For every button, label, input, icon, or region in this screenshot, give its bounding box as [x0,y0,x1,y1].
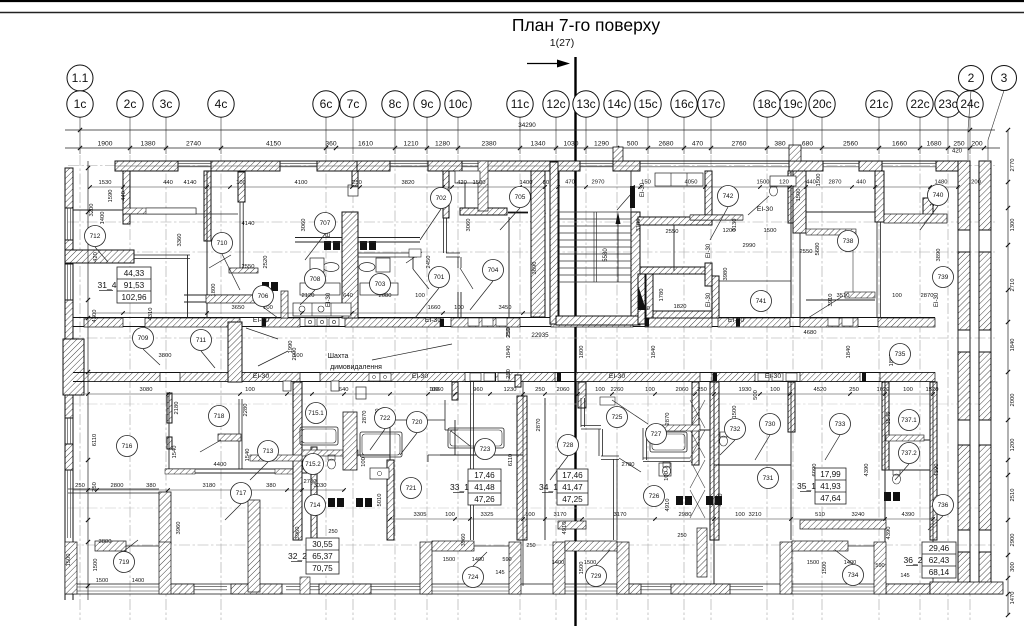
svg-text:145: 145 [495,570,504,576]
svg-text:1660: 1660 [431,387,444,393]
svg-text:730: 730 [765,421,776,428]
svg-text:3210: 3210 [749,512,762,518]
svg-text:1300: 1300 [1010,219,1016,232]
svg-text:17,46: 17,46 [474,471,495,480]
svg-text:22c: 22c [910,97,929,111]
svg-text:1400: 1400 [552,560,564,566]
svg-text:1610: 1610 [358,141,373,148]
svg-text:4100: 4100 [295,180,308,186]
svg-text:13c: 13c [576,97,595,111]
svg-text:2870: 2870 [829,180,842,186]
svg-text:2990: 2990 [743,243,756,249]
svg-text:35_1: 35_1 [797,481,816,491]
svg-text:250: 250 [953,141,964,148]
svg-text:3060: 3060 [301,219,307,232]
svg-text:250: 250 [677,533,686,539]
svg-text:EI-30: EI-30 [253,317,269,324]
svg-text:420: 420 [93,252,99,262]
svg-text:EI-30: EI-30 [728,317,744,324]
svg-text:1500: 1500 [96,578,108,584]
svg-text:3180: 3180 [203,483,216,489]
svg-text:721: 721 [406,485,417,492]
svg-text:5680: 5680 [815,243,821,256]
svg-text:740: 740 [933,192,944,199]
svg-text:EI-30: EI-30 [425,317,441,324]
svg-text:250: 250 [526,543,535,549]
svg-text:EI-30: EI-30 [765,373,781,380]
svg-text:380: 380 [774,141,785,148]
svg-text:1500: 1500 [443,557,455,563]
svg-text:738: 738 [843,238,854,245]
svg-text:640: 640 [343,293,353,299]
svg-text:960: 960 [473,387,483,393]
svg-text:47,25: 47,25 [562,495,583,504]
svg-text:2000: 2000 [1010,394,1016,407]
svg-text:731: 731 [763,475,774,482]
svg-text:440: 440 [806,180,816,186]
svg-text:1400: 1400 [132,578,144,584]
svg-text:47,26: 47,26 [474,495,495,504]
svg-text:420: 420 [457,180,467,186]
svg-text:742: 742 [723,193,734,200]
svg-text:380: 380 [146,483,156,489]
svg-text:2740: 2740 [186,141,201,148]
svg-text:41,93: 41,93 [820,482,841,491]
svg-text:3540: 3540 [886,412,892,425]
svg-text:100: 100 [415,293,425,299]
svg-text:1380: 1380 [141,141,156,148]
svg-text:5010: 5010 [377,494,383,507]
svg-text:1620: 1620 [877,387,890,393]
svg-text:3170: 3170 [614,512,627,518]
svg-text:9c: 9c [421,97,434,111]
svg-text:3360: 3360 [177,234,183,247]
svg-text:510: 510 [815,512,825,518]
svg-text:2870: 2870 [362,411,368,424]
svg-text:4140: 4140 [242,221,255,227]
svg-text:3c: 3c [160,97,173,111]
svg-text:4390: 4390 [718,494,724,507]
svg-text:3820: 3820 [402,180,415,186]
svg-text:1800: 1800 [579,346,585,359]
svg-text:100: 100 [361,457,367,467]
svg-text:3960: 3960 [461,534,467,547]
svg-text:4050: 4050 [685,180,698,186]
svg-text:1840: 1840 [1010,339,1016,352]
svg-text:18c: 18c [757,97,776,111]
svg-text:4680: 4680 [804,330,817,336]
svg-text:EI-30: EI-30 [934,292,940,307]
svg-text:3325: 3325 [481,512,494,518]
svg-text:2550: 2550 [666,229,679,235]
svg-text:EI-30: EI-30 [706,243,712,258]
svg-text:500: 500 [627,141,638,148]
svg-text:EI-30: EI-30 [609,373,625,380]
svg-text:3800: 3800 [99,539,112,545]
svg-text:2: 2 [968,71,975,85]
svg-text:14c: 14c [607,97,626,111]
svg-text:1500: 1500 [66,554,72,567]
svg-text:4400: 4400 [214,462,227,468]
svg-text:7c: 7c [347,97,360,111]
svg-text:1840: 1840 [506,346,512,359]
svg-text:1840: 1840 [651,346,657,359]
svg-text:4910: 4910 [665,499,671,512]
svg-text:590: 590 [875,563,884,569]
svg-text:2560: 2560 [843,141,858,148]
svg-text:680: 680 [802,141,813,148]
svg-text:4520: 4520 [814,387,827,393]
svg-text:706: 706 [258,293,269,300]
svg-text:4c: 4c [215,97,228,111]
svg-text:2450: 2450 [426,256,432,269]
svg-text:250: 250 [506,328,512,338]
svg-text:33_1: 33_1 [450,482,469,492]
svg-text:250: 250 [75,483,85,489]
svg-text:300: 300 [1010,562,1016,572]
svg-text:3800: 3800 [159,353,172,359]
svg-text:440: 440 [121,191,127,201]
svg-text:100: 100 [892,293,902,299]
svg-text:100: 100 [903,387,913,393]
svg-text:1660: 1660 [892,141,907,148]
svg-text:732: 732 [730,426,741,433]
svg-text:1800: 1800 [211,284,217,297]
svg-text:2980: 2980 [679,512,692,518]
svg-text:707: 707 [320,220,331,227]
svg-text:2870: 2870 [921,293,934,299]
svg-text:100: 100 [735,512,745,518]
svg-text:250: 250 [535,387,545,393]
svg-text:1500: 1500 [584,560,596,566]
svg-text:714: 714 [310,502,321,509]
svg-text:100: 100 [245,387,255,393]
svg-text:EI-30: EI-30 [412,373,428,380]
svg-text:100: 100 [525,512,535,518]
svg-text:2060: 2060 [557,387,570,393]
svg-text:62,43: 62,43 [929,556,950,565]
svg-text:5580: 5580 [603,248,609,262]
svg-text:20c: 20c [812,97,831,111]
svg-text:726: 726 [649,493,660,500]
svg-text:41,47: 41,47 [562,483,583,492]
svg-text:724: 724 [468,574,479,581]
svg-text:4310: 4310 [148,308,154,321]
svg-text:250: 250 [92,482,98,492]
svg-text:1500: 1500 [764,228,777,234]
svg-text:720: 720 [412,419,423,426]
svg-text:15c: 15c [638,97,657,111]
svg-text:30,55: 30,55 [312,540,333,549]
svg-text:10c: 10c [448,97,467,111]
svg-text:23c: 23c [938,97,957,111]
svg-text:1500: 1500 [822,562,828,575]
svg-text:3450: 3450 [499,305,512,311]
svg-text:2550: 2550 [800,249,813,255]
svg-text:1500: 1500 [807,560,819,566]
svg-text:470: 470 [692,141,703,148]
svg-text:1540: 1540 [245,449,251,462]
svg-text:1780: 1780 [659,289,665,302]
svg-text:715.1: 715.1 [308,410,324,417]
svg-text:736: 736 [938,502,949,509]
svg-text:100: 100 [664,471,670,481]
svg-text:100: 100 [454,305,464,311]
svg-text:709: 709 [138,335,149,342]
svg-text:703: 703 [375,281,386,288]
svg-text:1500: 1500 [473,180,486,186]
svg-text:8c: 8c [389,97,402,111]
svg-text:3960: 3960 [295,527,301,540]
svg-text:2760: 2760 [732,141,747,148]
svg-text:3130: 3130 [732,219,738,232]
svg-text:500: 500 [753,390,759,400]
svg-text:734: 734 [848,572,859,579]
svg-text:21c: 21c [869,97,888,111]
svg-text:47,64: 47,64 [820,494,841,503]
svg-text:22935: 22935 [531,332,549,339]
svg-text:3170: 3170 [554,512,567,518]
svg-text:Шахта: Шахта [328,353,349,360]
svg-text:1990: 1990 [288,341,294,354]
svg-text:1590: 1590 [108,190,114,203]
svg-text:EI-30: EI-30 [640,182,646,197]
svg-text:2120: 2120 [302,293,315,299]
svg-text:3060: 3060 [466,219,472,232]
svg-text:733: 733 [835,421,846,428]
svg-text:710: 710 [217,240,228,247]
svg-text:2870: 2870 [536,419,542,432]
svg-text:17,99: 17,99 [820,470,841,479]
svg-text:3890: 3890 [936,249,942,262]
svg-text:1470: 1470 [1010,592,1016,605]
svg-text:250: 250 [328,529,337,535]
svg-text:1400: 1400 [472,557,484,563]
svg-text:3890: 3890 [532,262,538,275]
svg-text:2520: 2520 [263,256,269,269]
svg-text:737.1: 737.1 [901,417,917,424]
svg-text:250: 250 [849,387,859,393]
svg-text:100: 100 [445,512,455,518]
svg-text:3130: 3130 [636,219,642,232]
svg-text:4390: 4390 [934,464,940,477]
svg-text:711: 711 [196,337,207,344]
svg-text:4390: 4390 [902,512,915,518]
svg-text:EI-30: EI-30 [706,292,712,307]
svg-text:3980: 3980 [723,268,729,281]
svg-text:1340: 1340 [531,141,546,148]
svg-text:80: 80 [543,180,549,186]
svg-text:100: 100 [770,387,780,393]
svg-text:41,48: 41,48 [474,483,495,492]
svg-text:420: 420 [952,149,963,155]
svg-text:250: 250 [352,180,362,186]
svg-text:716: 716 [122,443,133,450]
svg-text:EI-30: EI-30 [757,206,773,213]
svg-text:100: 100 [236,180,246,186]
svg-text:723: 723 [480,446,491,453]
svg-text:19c: 19c [783,97,802,111]
svg-text:1680: 1680 [927,141,942,148]
svg-text:3080: 3080 [140,387,153,393]
svg-text:708: 708 [310,276,321,283]
svg-text:470: 470 [565,180,575,186]
svg-text:1290: 1290 [594,141,609,148]
svg-text:34290: 34290 [518,122,536,129]
svg-text:2180: 2180 [174,402,180,415]
svg-text:1540: 1540 [172,446,178,459]
svg-text:1280: 1280 [435,141,450,148]
svg-text:705: 705 [515,194,526,201]
svg-text:1500: 1500 [757,180,770,186]
svg-text:2770: 2770 [1010,159,1016,172]
svg-text:1900: 1900 [98,141,113,148]
svg-text:1820: 1820 [674,304,687,310]
svg-text:17c: 17c [701,97,720,111]
svg-text:590: 590 [502,557,511,563]
svg-text:4140: 4140 [184,180,197,186]
svg-text:34_1: 34_1 [539,482,558,492]
svg-text:1200: 1200 [1010,439,1016,452]
svg-text:1400: 1400 [100,212,106,225]
svg-text:200: 200 [971,180,981,186]
svg-text:200: 200 [971,141,982,148]
svg-text:2780: 2780 [622,462,635,468]
svg-text:440: 440 [856,180,866,186]
svg-text:17,46: 17,46 [562,471,583,480]
svg-text:2900: 2900 [1010,534,1016,547]
svg-text:717: 717 [236,490,247,497]
svg-text:712: 712 [90,233,101,240]
svg-text:2780: 2780 [304,479,317,485]
svg-text:2380: 2380 [482,141,497,148]
svg-text:719: 719 [119,559,130,566]
svg-text:1840: 1840 [846,346,852,359]
svg-text:2280: 2280 [243,404,249,417]
svg-text:380: 380 [266,483,276,489]
svg-text:1210: 1210 [404,141,419,148]
svg-text:1030: 1030 [564,141,579,148]
svg-text:План 7-го поверху: План 7-го поверху [512,15,661,35]
svg-text:360: 360 [325,141,336,148]
svg-text:715.2: 715.2 [305,461,321,468]
svg-text:4300: 4300 [92,310,98,323]
svg-text:704: 704 [488,267,499,274]
svg-text:EI-30: EI-30 [253,373,269,380]
svg-text:3510: 3510 [837,293,850,299]
svg-text:31_4: 31_4 [98,280,117,290]
svg-text:3960: 3960 [176,522,182,535]
svg-text:1500: 1500 [732,406,738,419]
svg-text:100: 100 [645,387,655,393]
svg-text:1500: 1500 [796,189,802,202]
svg-text:2060: 2060 [676,387,689,393]
svg-text:1230: 1230 [504,387,517,393]
svg-text:3: 3 [1001,71,1008,85]
svg-text:4390: 4390 [886,527,892,540]
svg-text:480: 480 [640,306,650,312]
svg-text:11c: 11c [511,97,529,111]
svg-text:димовидалення: димовидалення [330,364,382,371]
svg-text:1500: 1500 [93,559,99,572]
svg-text:2710: 2710 [1010,279,1016,292]
svg-text:65,37: 65,37 [312,552,333,561]
svg-text:91,53: 91,53 [124,281,145,290]
svg-text:1c: 1c [74,97,87,111]
svg-text:2870: 2870 [665,413,671,426]
svg-text:1(27): 1(27) [550,37,575,49]
svg-text:44,33: 44,33 [124,269,145,278]
svg-text:2680: 2680 [659,141,674,148]
svg-text:1660: 1660 [428,305,441,311]
svg-text:701: 701 [434,274,445,281]
svg-text:12c: 12c [546,97,565,111]
svg-text:6110: 6110 [92,434,98,446]
svg-text:737.2: 737.2 [901,450,917,457]
svg-text:1.1: 1.1 [72,71,89,85]
svg-text:2800: 2800 [111,483,124,489]
svg-text:102,96: 102,96 [121,293,146,302]
svg-text:6c: 6c [320,97,333,111]
svg-text:1500: 1500 [579,562,585,575]
svg-text:4150: 4150 [266,141,281,148]
svg-text:29,46: 29,46 [929,544,950,553]
svg-text:739: 739 [938,274,949,281]
svg-text:1500: 1500 [816,174,822,187]
svg-text:250: 250 [506,369,512,379]
svg-text:32_2: 32_2 [288,551,307,561]
svg-text:741: 741 [756,298,767,305]
svg-text:70,75: 70,75 [312,564,333,573]
svg-text:702: 702 [436,195,447,202]
svg-text:1930: 1930 [739,387,752,393]
svg-text:718: 718 [214,413,225,420]
svg-text:3240: 3240 [852,512,865,518]
svg-text:250: 250 [697,387,707,393]
svg-text:68,14: 68,14 [929,568,950,577]
svg-text:727: 727 [651,431,662,438]
svg-text:145: 145 [900,573,909,579]
svg-text:3650: 3650 [232,305,245,311]
svg-text:729: 729 [591,573,602,580]
svg-text:EI-30: EI-30 [326,292,332,307]
svg-text:725: 725 [612,414,623,421]
svg-text:2260: 2260 [611,387,624,393]
svg-text:2510: 2510 [1010,489,1016,502]
svg-text:4390: 4390 [864,464,870,477]
svg-text:2550: 2550 [242,264,255,270]
svg-text:722: 722 [380,415,391,422]
svg-text:1530: 1530 [99,180,112,186]
svg-text:4910: 4910 [562,522,568,535]
svg-text:728: 728 [563,442,574,449]
svg-text:3910: 3910 [828,294,834,307]
svg-text:120: 120 [779,180,789,186]
svg-text:100: 100 [595,387,605,393]
svg-text:2970: 2970 [592,180,605,186]
svg-text:713: 713 [263,448,274,455]
svg-text:2c: 2c [124,97,137,111]
svg-text:36_2: 36_2 [904,555,923,565]
svg-text:6110: 6110 [508,454,514,466]
svg-text:16c: 16c [674,97,693,111]
svg-text:440: 440 [163,180,173,186]
svg-text:1520: 1520 [926,387,939,393]
svg-text:3305: 3305 [414,512,427,518]
svg-text:735: 735 [895,351,906,358]
